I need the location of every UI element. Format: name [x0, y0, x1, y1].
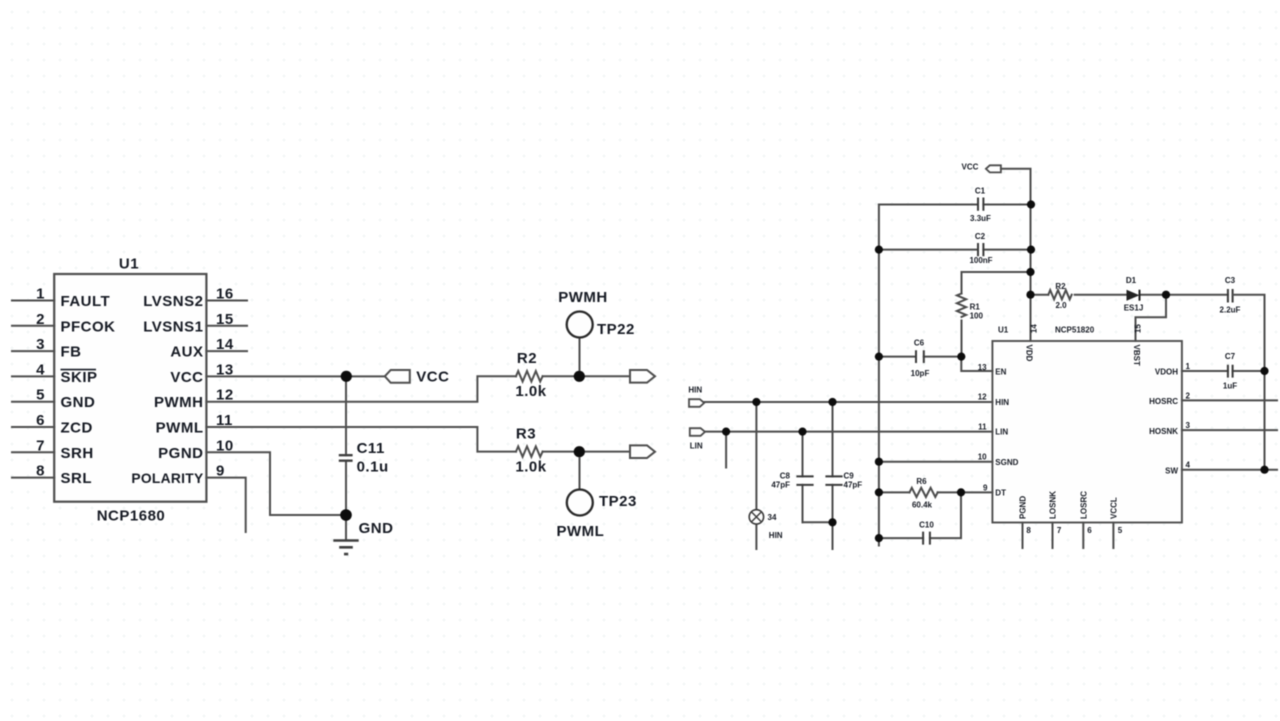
svg-text:SRL: SRL [61, 470, 93, 487]
svg-text:14: 14 [216, 336, 234, 353]
svg-text:TP23: TP23 [599, 493, 637, 510]
svg-text:47pF: 47pF [844, 481, 863, 490]
svg-text:DT: DT [995, 488, 1006, 497]
svg-text:HIN: HIN [769, 531, 783, 540]
svg-text:C1: C1 [975, 187, 986, 196]
svg-text:3: 3 [36, 336, 45, 353]
svg-text:4: 4 [1186, 461, 1191, 470]
svg-text:AUX: AUX [170, 344, 203, 361]
svg-text:U1: U1 [998, 326, 1009, 335]
svg-text:10: 10 [216, 437, 234, 454]
svg-text:PGND: PGND [1019, 496, 1028, 519]
svg-text:TP22: TP22 [597, 321, 635, 338]
svg-text:LOSRC: LOSRC [1079, 491, 1088, 519]
svg-text:11: 11 [978, 422, 987, 431]
svg-text:R6: R6 [916, 477, 927, 486]
svg-text:GND: GND [61, 394, 96, 411]
svg-text:C11: C11 [357, 440, 385, 457]
svg-text:0.1u: 0.1u [357, 458, 389, 475]
svg-text:PWMH: PWMH [154, 394, 204, 411]
svg-text:SW: SW [1165, 466, 1178, 475]
svg-text:1.0k: 1.0k [515, 383, 546, 400]
svg-text:FAULT: FAULT [61, 293, 111, 310]
svg-text:FB: FB [61, 344, 82, 361]
svg-text:C3: C3 [1225, 276, 1236, 285]
svg-text:13: 13 [216, 361, 234, 378]
svg-text:3.3uF: 3.3uF [970, 214, 991, 223]
svg-text:D1: D1 [1126, 276, 1137, 285]
svg-text:9: 9 [983, 484, 988, 493]
svg-text:LVSNS1: LVSNS1 [143, 318, 203, 335]
svg-text:PGND: PGND [158, 445, 203, 462]
svg-text:R1: R1 [970, 303, 981, 312]
svg-text:NCP1680: NCP1680 [97, 508, 166, 525]
svg-text:100nF: 100nF [969, 256, 992, 265]
svg-text:PWML: PWML [156, 420, 204, 437]
svg-text:2.2uF: 2.2uF [1220, 306, 1241, 315]
svg-text:2: 2 [1186, 391, 1191, 400]
svg-text:LIN: LIN [690, 442, 703, 451]
svg-text:6: 6 [36, 412, 45, 429]
svg-text:C7: C7 [1225, 352, 1236, 361]
svg-text:8: 8 [1026, 526, 1031, 535]
svg-text:PWML: PWML [556, 523, 604, 540]
svg-text:12: 12 [978, 393, 987, 402]
svg-text:3: 3 [1186, 421, 1191, 430]
svg-text:4: 4 [36, 361, 45, 378]
svg-text:C8: C8 [780, 472, 791, 481]
svg-text:8: 8 [36, 463, 45, 480]
svg-text:7: 7 [1057, 526, 1062, 535]
svg-text:SKIP: SKIP [61, 369, 98, 386]
svg-text:VDOH: VDOH [1155, 368, 1178, 377]
svg-text:HOSNK: HOSNK [1149, 427, 1178, 436]
svg-text:5: 5 [1118, 526, 1123, 535]
svg-text:R2: R2 [517, 350, 537, 367]
svg-text:U1: U1 [119, 256, 139, 273]
svg-text:12: 12 [216, 387, 234, 404]
svg-text:VCC: VCC [416, 369, 449, 386]
svg-text:34: 34 [768, 513, 777, 522]
svg-text:15: 15 [216, 311, 234, 328]
svg-text:15: 15 [1134, 324, 1143, 333]
svg-text:POLARITY: POLARITY [131, 471, 203, 486]
svg-text:11: 11 [216, 412, 233, 429]
svg-text:VCCL: VCCL [1109, 497, 1118, 519]
svg-text:14: 14 [1029, 324, 1038, 333]
svg-text:100: 100 [970, 312, 984, 321]
svg-text:7: 7 [36, 437, 45, 454]
svg-text:1: 1 [1186, 362, 1191, 371]
svg-text:VCC: VCC [962, 163, 979, 172]
svg-text:NCP51820: NCP51820 [1055, 326, 1095, 335]
svg-text:LIN: LIN [995, 428, 1008, 437]
svg-text:PWMH: PWMH [558, 289, 608, 306]
svg-text:C6: C6 [914, 339, 925, 348]
svg-text:9: 9 [216, 463, 225, 480]
svg-text:HIN: HIN [995, 398, 1009, 407]
svg-text:1uF: 1uF [1223, 382, 1237, 391]
svg-text:LVSNS2: LVSNS2 [143, 293, 203, 310]
svg-text:PFCOK: PFCOK [61, 318, 116, 335]
svg-text:C10: C10 [919, 521, 934, 530]
svg-text:2: 2 [36, 311, 45, 328]
svg-text:2.0: 2.0 [1055, 301, 1067, 310]
svg-text:ES1J: ES1J [1124, 304, 1144, 313]
svg-text:10pF: 10pF [911, 369, 930, 378]
svg-text:C2: C2 [975, 232, 986, 241]
svg-text:47pF: 47pF [771, 481, 790, 490]
svg-text:R2: R2 [1055, 282, 1066, 291]
svg-text:EN: EN [995, 368, 1006, 377]
svg-text:SGND: SGND [995, 458, 1018, 467]
svg-text:C9: C9 [844, 472, 855, 481]
svg-text:VDD: VDD [1024, 345, 1033, 362]
svg-text:R3: R3 [516, 426, 536, 443]
svg-text:VCC: VCC [170, 369, 203, 386]
svg-text:GND: GND [359, 520, 394, 537]
svg-text:HOSRC: HOSRC [1149, 397, 1178, 406]
svg-text:6: 6 [1087, 526, 1092, 535]
svg-text:1: 1 [36, 286, 45, 303]
svg-text:5: 5 [36, 387, 45, 404]
svg-text:13: 13 [978, 363, 987, 372]
svg-text:ZCD: ZCD [61, 420, 93, 437]
svg-text:VBST: VBST [1132, 345, 1141, 366]
svg-text:16: 16 [216, 286, 234, 303]
svg-text:60.4k: 60.4k [912, 501, 933, 510]
svg-text:SRH: SRH [61, 445, 94, 462]
svg-text:LOSNK: LOSNK [1049, 491, 1058, 519]
svg-text:1.0k: 1.0k [515, 459, 546, 476]
svg-text:10: 10 [978, 453, 987, 462]
svg-text:HIN: HIN [688, 386, 702, 395]
